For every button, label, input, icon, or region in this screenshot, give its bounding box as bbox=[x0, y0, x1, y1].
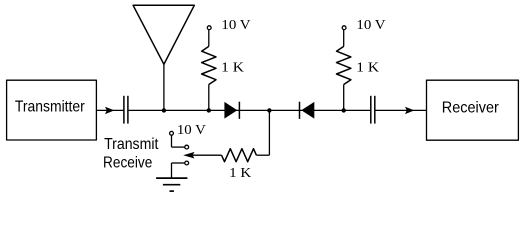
svg-text:1 K: 1 K bbox=[356, 59, 379, 74]
svg-text:1 K: 1 K bbox=[221, 59, 244, 74]
svg-text:Receive: Receive bbox=[103, 155, 152, 172]
svg-text:10 V: 10 V bbox=[356, 17, 385, 32]
svg-text:Transmitter: Transmitter bbox=[15, 98, 85, 115]
svg-text:Receiver: Receiver bbox=[442, 99, 500, 116]
svg-text:10 V: 10 V bbox=[221, 17, 250, 32]
svg-text:10 V: 10 V bbox=[177, 122, 206, 137]
svg-text:Transmit: Transmit bbox=[104, 136, 159, 153]
svg-text:1 K: 1 K bbox=[229, 165, 251, 180]
